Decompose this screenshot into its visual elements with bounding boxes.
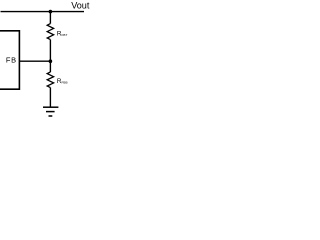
svg-text:Vout: Vout (71, 0, 90, 10)
svg-text:FB: FB (6, 56, 17, 65)
